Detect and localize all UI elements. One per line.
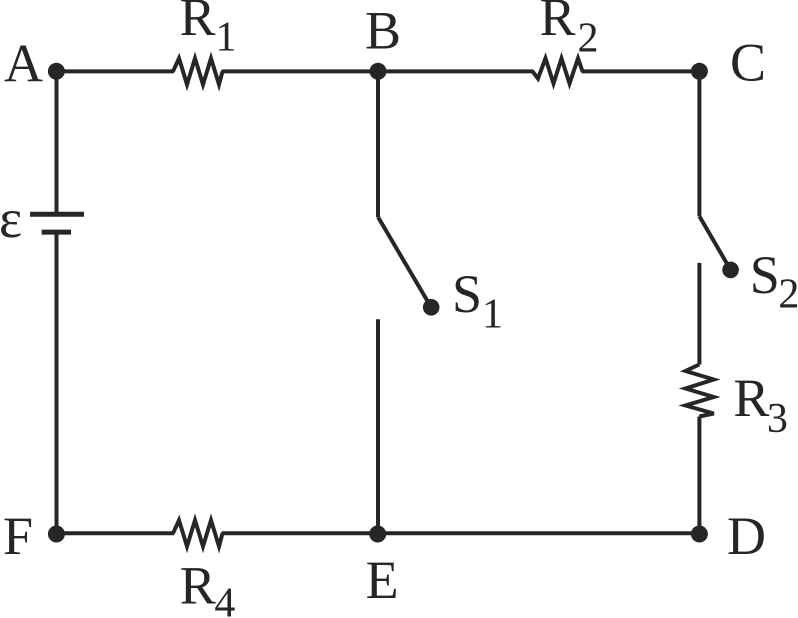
- svg-text:C: C: [730, 33, 766, 93]
- switch S2 contact dot: [722, 262, 739, 279]
- wire R3 to D: [697, 417, 701, 534]
- wire E to D: [378, 531, 700, 535]
- node A junction dot: [48, 63, 65, 80]
- svg-text:R2: R2: [540, 0, 599, 61]
- wire F to R4: [57, 531, 175, 535]
- node D junction dot: [691, 526, 708, 543]
- resistor R3: [686, 365, 714, 417]
- resistor R2: [533, 58, 583, 83]
- node E junction dot: [369, 526, 386, 543]
- wire R4 to E: [222, 531, 378, 535]
- wire below S1 to E: [376, 319, 380, 533]
- battery EMF negative plate: [42, 230, 71, 235]
- switch S2 blade: [699, 216, 730, 270]
- switch S1 blade: [378, 217, 431, 307]
- wire C down to switch S2: [697, 71, 701, 216]
- svg-text:E: E: [366, 550, 399, 610]
- svg-text:R1: R1: [180, 0, 237, 61]
- wire B down to switch S1: [376, 71, 380, 217]
- svg-text:F: F: [3, 506, 33, 566]
- wire R2 to C: [582, 69, 700, 73]
- svg-text:D: D: [727, 506, 766, 566]
- wire A to battery: [55, 71, 59, 214]
- resistor R1: [173, 58, 223, 84]
- resistor R4: [173, 520, 223, 546]
- wire A to R1 (top left): [57, 69, 175, 73]
- svg-text:ε: ε: [0, 188, 22, 249]
- svg-text:S2: S2: [750, 245, 798, 317]
- svg-text:R4: R4: [180, 556, 236, 618]
- switch S1 contact dot: [423, 299, 440, 316]
- svg-text:A: A: [4, 33, 43, 93]
- node C junction dot: [691, 63, 708, 80]
- svg-text:S1: S1: [452, 264, 503, 337]
- node F junction dot: [48, 526, 65, 543]
- svg-text:B: B: [365, 0, 401, 60]
- svg-text:R3: R3: [733, 368, 788, 442]
- node B junction dot: [370, 63, 387, 80]
- battery EMF positive plate: [30, 212, 84, 217]
- wire R1 to B: [222, 69, 379, 73]
- wire B to R2: [378, 69, 534, 73]
- wire below S2 to R3: [697, 263, 701, 365]
- wire battery to F: [55, 232, 59, 533]
